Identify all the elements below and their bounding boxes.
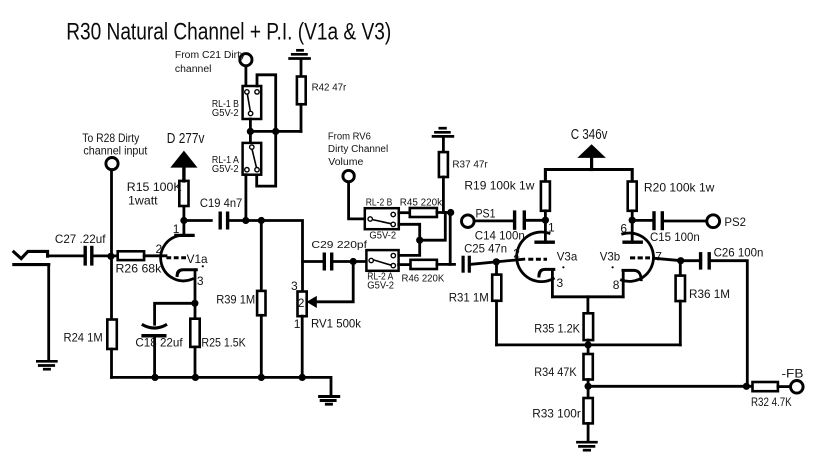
wire C14 to V3a pin1 node (526, 219, 545, 222)
wire R34 to R33 (587, 380, 590, 399)
V3b plate bar (622, 241, 643, 244)
wire jack sleeve down to ground (47, 265, 50, 360)
RV1 wiper arrow (307, 296, 317, 308)
wire PS1 to C14 (474, 219, 514, 222)
wire RV6 terminal to RL-2B (349, 182, 365, 219)
svg-text:V1a: V1a (187, 252, 208, 266)
wire RL-2B bottom contact down to RL-2A top contact (399, 224, 420, 255)
V1a cathode lead (pin 3) down (194, 270, 197, 319)
wire node to R31 (495, 262, 498, 275)
wire R25 to rail (194, 347, 197, 378)
node input (C27/R26/R24/terminal) (107, 253, 114, 260)
V3b cathode lead pin 8 (622, 270, 625, 296)
svg-text:C 346v: C 346v (571, 127, 608, 143)
svg-text:C19 4n7: C19 4n7 (200, 196, 243, 210)
relay RL-2 B G5V-2 (365, 208, 399, 229)
capacitor C29 220pf (324, 253, 331, 271)
node RL-1A drop (242, 217, 249, 224)
svg-text:PS2: PS2 (724, 215, 746, 229)
svg-text:7: 7 (655, 250, 662, 264)
svg-text:2: 2 (513, 247, 520, 261)
wire R35 through rail to R34 (587, 340, 590, 354)
svg-text:R33 100r: R33 100r (532, 406, 581, 420)
resistor R20 100k 1w (628, 182, 637, 211)
wire C29 to RL-2A (333, 260, 366, 263)
wire RL-1A to C19 node (244, 175, 247, 221)
svg-text:From C21 Dirty: From C21 Dirty (175, 50, 245, 61)
node relay common (247, 128, 254, 135)
node FB tap (585, 383, 592, 390)
input jack J1 sleeve (14, 263, 49, 266)
node R36 top (677, 257, 684, 264)
svg-text:G5V-2: G5V-2 (369, 231, 396, 242)
node cathode junction (191, 300, 198, 307)
wire RL-2A bottom contact to R46 (399, 263, 411, 266)
wire RL-2B top contact to R45 (399, 211, 410, 214)
svg-text:2: 2 (156, 242, 163, 256)
V3a cathode (539, 269, 554, 276)
triode V1a envelope (161, 236, 193, 281)
svg-text:RL-2 B: RL-2 B (366, 197, 393, 208)
bottom ground rail (112, 377, 332, 395)
wire node to C15 (632, 219, 652, 222)
svg-text:PS1: PS1 (476, 207, 496, 221)
svg-text:RV1 500k: RV1 500k (311, 317, 362, 331)
V1a cathode (177, 270, 196, 276)
svg-text:-FB: -FB (782, 367, 804, 381)
V3a grid dashes (528, 258, 547, 261)
node bypass crossing (272, 128, 279, 135)
terminal From RV6 dirty channel volume (343, 170, 354, 181)
svg-text:1: 1 (548, 221, 555, 235)
wire R32 to FB terminal (778, 385, 791, 388)
svg-text:R26 68k: R26 68k (116, 261, 163, 275)
V3b cathode (623, 270, 641, 279)
capacitor C26 100n (701, 252, 710, 270)
svg-text:channel input: channel input (83, 144, 148, 158)
svg-text:8: 8 (613, 278, 620, 292)
resistor R26 68k (118, 251, 144, 260)
resistor R37 47r (439, 152, 448, 177)
relay RL-1 B G5V-2 (243, 86, 262, 119)
svg-text:1: 1 (294, 317, 301, 331)
svg-text:C18 22uf: C18 22uf (135, 336, 183, 350)
wire V3b grid to C26 (655, 258, 699, 260)
node R25 on rail (192, 374, 199, 381)
resistor R36 1M (676, 276, 685, 302)
svg-text:1: 1 (173, 222, 180, 236)
node C18 on rail (151, 374, 158, 381)
resistor R34 47K (584, 354, 593, 380)
resistor R42 47r (297, 77, 306, 105)
long tail rail R31-R35-R36 (497, 343, 681, 346)
wire between relays (249, 119, 252, 143)
wire R45 to node N1 (437, 211, 451, 214)
resistor R31 1M (492, 275, 501, 301)
wire ground to R42 (300, 60, 303, 77)
capacitor C27 .22uf (85, 246, 92, 266)
relay RL-1 A G5V-2 (243, 143, 262, 175)
wire C25 to V3a grid (471, 259, 524, 264)
terminal -FB (791, 381, 804, 394)
svg-text:C26 100n: C26 100n (714, 246, 764, 260)
svg-text:1watt: 1watt (128, 194, 158, 208)
wire FB tap to R32 (588, 385, 752, 388)
wire terminal to RL-1B (244, 66, 247, 86)
resistor R15 100K 1watt (179, 181, 188, 206)
wire R33 to ground (587, 423, 590, 441)
wire C19 out to RV1 corner (229, 221, 302, 292)
triode V3a envelope (517, 232, 554, 282)
wire plate node to C19 (184, 219, 211, 222)
wire R24 to bottom rail (110, 349, 113, 377)
svg-text:R46 220K: R46 220K (402, 273, 445, 284)
svg-text:R25 1.5K: R25 1.5K (201, 336, 245, 350)
wire relay node to R42 (250, 130, 301, 133)
supply arrow C 346v (577, 144, 606, 158)
wire R39 bottom lead (260, 315, 263, 377)
resistor R32 4.7K (753, 382, 778, 391)
svg-text:From RV6: From RV6 (328, 131, 371, 142)
svg-text:R42 47r: R42 47r (312, 83, 347, 94)
wire N1 down to C25 (449, 213, 452, 265)
wire bypass loop RL-1B top-right to RL-1A bottom-right (257, 75, 276, 186)
svg-text:G5V-2: G5V-2 (212, 164, 239, 175)
node relay link (416, 237, 423, 244)
svg-text:C29 220pf: C29 220pf (311, 240, 367, 251)
capacitor C14 100n (515, 210, 525, 229)
svg-text:Dirty Channel: Dirty Channel (328, 144, 388, 155)
terminal From C21 dirty channel (240, 54, 252, 66)
wire C15 to PS2 (664, 220, 707, 223)
svg-text:R32 4.7K: R32 4.7K (751, 395, 792, 409)
resistor R35 1.2K (584, 313, 594, 340)
node RV1 on rail (299, 374, 306, 381)
resistor R39 1M (257, 291, 265, 315)
node R39 on rail (258, 374, 265, 381)
speck artifact near V3a (562, 266, 564, 268)
svg-text:3: 3 (291, 279, 298, 293)
resistor R46 220K (411, 260, 437, 269)
resistor R24 1M (107, 320, 117, 350)
wire R42 to relay node (300, 104, 303, 131)
wire R19 to V3a plate (544, 211, 547, 242)
supply arrow D 277v (170, 151, 197, 168)
V1a plate lead (pin 1) from R15 node (182, 206, 185, 235)
svg-text:R36 1M: R36 1M (689, 287, 730, 301)
ground above R42 (288, 50, 311, 58)
node R31 top (493, 258, 500, 265)
supply rail to R19 and R20 (545, 170, 632, 182)
wire relay link to R45 output (420, 213, 446, 241)
wire C26 down to FB node (711, 261, 747, 387)
node R35 on tail rail (585, 341, 592, 348)
wire RV1 bottom to rail (301, 316, 304, 377)
node V3b plate / R20 / C15 (629, 217, 636, 224)
ground above R37 (432, 128, 455, 136)
svg-text:V3b: V3b (600, 250, 621, 264)
wire C27 to R26 with node (94, 254, 118, 257)
svg-text:R19 100k 1w: R19 100k 1w (464, 179, 534, 193)
svg-text:R24 1M: R24 1M (64, 331, 103, 345)
svg-text:R15 100K: R15 100K (127, 180, 182, 194)
relay RL-2 A G5V-2 (366, 250, 398, 271)
V3a plate bar (534, 241, 555, 244)
svg-text:C27 .22uf: C27 .22uf (55, 232, 106, 246)
V3a cathode lead pin 3 (551, 269, 554, 296)
resistor R19 100k 1w (541, 182, 550, 211)
svg-text:R30 Natural Channel + P.I. (V1: R30 Natural Channel + P.I. (V1a & V3) (66, 18, 391, 45)
ground (input jack) (36, 361, 58, 369)
svg-text:C15 100n: C15 100n (650, 230, 700, 244)
speck artifact near V3b (612, 266, 614, 268)
wire C18 to rail (153, 337, 156, 377)
wire node to R36 (679, 261, 682, 276)
wire RV1 top tee to C29 (303, 260, 323, 263)
svg-text:R31 1M: R31 1M (449, 291, 489, 305)
capacitor C18 22uf curved plate (142, 324, 167, 328)
capacitor C15 100n (654, 211, 662, 230)
node N1 (447, 209, 454, 216)
wire R39 top lead (260, 221, 263, 291)
input jack J1 tip contact (14, 251, 48, 258)
ground (bottom rail) (318, 397, 340, 405)
svg-text:R20 100k 1w: R20 100k 1w (644, 181, 715, 195)
terminal To R28 dirty channel input (106, 158, 118, 170)
V1a grid dashes (166, 256, 186, 259)
V3b grid dashes (630, 256, 650, 259)
wire R26 to V1a grid (144, 254, 166, 257)
svg-text:R35 1.2K: R35 1.2K (534, 321, 580, 335)
terminal PS1 (462, 215, 475, 228)
node C26 drop on FB line (743, 383, 750, 390)
triode V3b envelope (622, 233, 654, 281)
wire R36 to tail rail (679, 301, 682, 345)
terminal PS2 (707, 215, 720, 228)
capacitor C25 47n (463, 256, 469, 273)
svg-text:R45 220k: R45 220k (400, 198, 443, 209)
wire jack tip to C27 (48, 254, 84, 257)
potentiometer RV1 500k body (298, 292, 307, 317)
svg-text:3: 3 (557, 276, 564, 290)
node C29 / wiper / RL-2A (350, 258, 357, 265)
svg-text:G5V-2: G5V-2 (212, 108, 239, 119)
wire ground to R37 (442, 138, 445, 153)
wire wiper to C29 node (315, 262, 353, 302)
svg-text:V3a: V3a (557, 249, 578, 263)
C18 straight plate (141, 334, 166, 338)
resistor R45 220k (410, 208, 437, 217)
wire R31 to tail rail (495, 301, 498, 345)
svg-text:G5V-2: G5V-2 (367, 280, 394, 291)
svg-text:R37 47r: R37 47r (452, 159, 488, 170)
wire V1a cathode branch to C18 (155, 303, 195, 324)
svg-text:channel: channel (175, 64, 212, 75)
svg-text:Volume: Volume (328, 157, 363, 168)
svg-text:C14 100n: C14 100n (475, 228, 525, 242)
node V3a plate / R19 / C14 (542, 217, 549, 224)
svg-text:C25 47n: C25 47n (464, 241, 507, 255)
svg-text:6: 6 (620, 222, 627, 236)
node R39 top (258, 217, 265, 224)
svg-text:R39 1M: R39 1M (216, 293, 255, 307)
wire terminal down through node to R24 (110, 170, 113, 320)
resistor R25 1.5K (190, 319, 199, 347)
wire shared cathode rail (552, 295, 623, 298)
wire R37 down to N1 (442, 177, 445, 213)
wire R20 to V3b plate (631, 211, 634, 242)
speck artifact near V1a (202, 265, 204, 267)
capacitor C19 4n7 (220, 212, 227, 230)
svg-text:D 277v: D 277v (167, 131, 205, 147)
svg-text:3: 3 (197, 274, 204, 288)
wire R46 to C25 node (437, 263, 455, 266)
svg-text:R34 47K: R34 47K (534, 365, 576, 379)
wire cathode tap to R35 (587, 297, 590, 314)
svg-text:2: 2 (298, 296, 305, 310)
V1a plate bar (174, 234, 195, 237)
resistor R33 100r (584, 398, 593, 423)
ground (R33) (576, 442, 598, 450)
node V1a plate / R15 / C19 (180, 217, 187, 224)
